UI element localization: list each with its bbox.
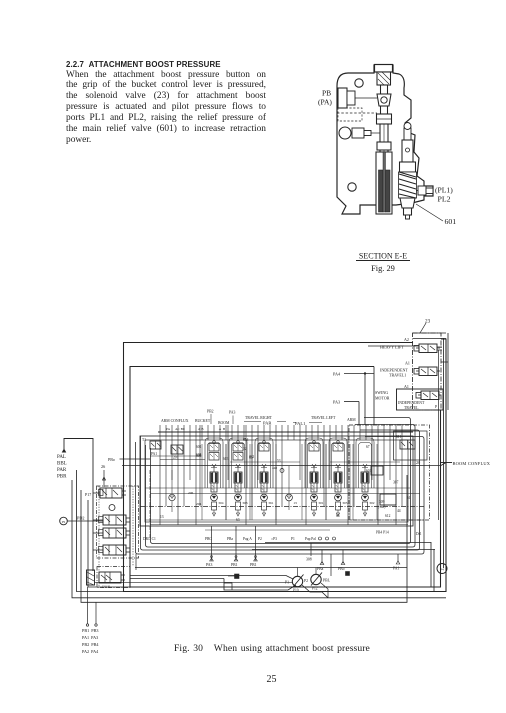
aux check column 289: [286, 494, 293, 501]
svg-text:P: P: [435, 405, 437, 409]
port PB(PA) flange: [338, 88, 347, 108]
svg-text:13: 13: [160, 515, 164, 519]
svg-text:P1: P1: [291, 537, 295, 541]
left wire B: [77, 470, 435, 592]
port PL fitting2: [426, 188, 433, 194]
pump P2 suction stub: [315, 568, 317, 575]
svg-text:A1: A1: [404, 384, 409, 389]
leader 601: [416, 204, 443, 221]
pilot valve 1 body: [100, 488, 122, 498]
svg-text:P17: P17: [85, 492, 91, 497]
solenoid valve heavy lift: [419, 344, 437, 353]
boss hole lower: [348, 183, 356, 191]
spring seat: [377, 114, 392, 124]
PAL bracket lines: [293, 422, 322, 424]
right section box: [349, 425, 430, 520]
cartridge upper body: [402, 140, 413, 162]
svg-text:307: 307: [393, 481, 399, 485]
cartridge hatch fill: [399, 172, 416, 198]
block PBo: [346, 572, 350, 576]
mid fitting tip: [364, 131, 371, 136]
svg-text:INDEPENDENT: INDEPENDENT: [398, 401, 425, 405]
pilot block dash-dot frame: [97, 486, 139, 558]
cartridge tip2: [406, 215, 410, 219]
pump feed line lower: [130, 579, 296, 591]
bank tie wires: [145, 456, 424, 525]
spool upper stem: [380, 124, 388, 152]
pilot box 201: [171, 445, 183, 454]
svg-text:ARM CONFLUX: ARM CONFLUX: [161, 419, 189, 423]
wire PB1b down: [255, 526, 257, 561]
relief 601 mid: [371, 466, 383, 475]
solenoid box independent travel 2: [397, 389, 444, 410]
spool mid collar: [377, 142, 391, 150]
svg-text:PA1: PA1: [151, 452, 157, 456]
wire heavy lift: [368, 345, 419, 347]
svg-text:Pap Pal: Pap Pal: [305, 537, 316, 541]
ind travel 2 solenoid box: [416, 393, 421, 399]
pilot valve 2 body: [103, 515, 126, 525]
bottom bus 2: [265, 542, 431, 544]
svg-text:PA1: PA1: [393, 567, 400, 571]
valve body outline (Section E-E): [337, 65, 433, 214]
svg-text:Dr1: Dr1: [416, 532, 422, 536]
svg-text:(PA): (PA): [318, 98, 332, 107]
main spool valve cx=365: [356, 438, 374, 488]
Fig.30 hydraulic circuit schematic: [57, 319, 491, 655]
wire boom conflux: [441, 462, 452, 464]
wrap wire 1: [151, 418, 411, 544]
heavy lift valve detail: [416, 344, 440, 353]
port circle 1: [86, 624, 88, 626]
solenoid valve independent travel 1: [419, 367, 437, 376]
svg-text:204: 204: [196, 502, 202, 506]
svg-text:PB2: PB2: [207, 410, 214, 414]
svg-text:44: 44: [397, 509, 401, 513]
wire pilot bracket: [64, 439, 93, 572]
bank vertical feed wires: [160, 425, 402, 525]
svg-text:603: 603: [223, 457, 229, 461]
pilot bus dash-dot: [140, 506, 424, 508]
pilot valve 3 body: [103, 528, 126, 538]
bank tie wires 2: [205, 462, 400, 530]
svg-text:309: 309: [379, 500, 385, 504]
svg-text:61: 61: [407, 496, 411, 500]
pilot valve 4 body: [103, 545, 126, 555]
leader PB2: [210, 414, 212, 424]
svg-text:P10: P10: [293, 589, 299, 593]
svg-text:13: 13: [293, 501, 297, 505]
spool slot: [383, 152, 386, 212]
coupling ball: [381, 97, 387, 103]
circle Pi: [437, 564, 447, 574]
marker PBa: [320, 562, 324, 565]
figure 30 caption: [174, 643, 370, 654]
pump P1 circle: [292, 576, 302, 586]
svg-text:P12: P12: [312, 587, 318, 591]
port circle 2: [95, 624, 97, 626]
marker PA1: [396, 561, 400, 564]
svg-text:BOOM: BOOM: [218, 421, 230, 425]
ind travel 2 detail: [418, 391, 441, 400]
svg-text:PA3: PA3: [206, 563, 213, 567]
valve 611: [400, 440, 415, 449]
svg-text:TRAVEL: TRAVEL: [404, 406, 419, 410]
svg-text:303: 303: [242, 501, 248, 505]
svg-text:PA3: PA3: [333, 400, 340, 405]
right inner box: [394, 431, 428, 460]
svg-text:601: 601: [196, 445, 202, 449]
port PL line: [416, 190, 418, 192]
svg-text:53: 53: [277, 459, 281, 463]
svg-text:PBo: PBo: [108, 457, 115, 462]
svg-text:PB1 PB3: PB1 PB3: [82, 628, 99, 633]
mid fitting: [352, 128, 364, 138]
wire PB1 down: [235, 526, 237, 561]
svg-text:SWING: SWING: [375, 390, 388, 395]
dashed gallery line: [337, 112, 377, 114]
svg-text:611: 611: [396, 435, 401, 439]
arrowhead pilot: [62, 449, 66, 452]
port PL fitting: [418, 186, 426, 195]
svg-text:66: 66: [336, 514, 340, 518]
svg-text:PBa: PBa: [227, 537, 233, 541]
pump P2 arrow: [311, 573, 322, 586]
main spool valve cx=214: [205, 438, 223, 488]
port circles bottom: [319, 537, 322, 540]
leader PA3 top: [232, 416, 234, 425]
svg-text:26: 26: [101, 464, 105, 469]
solenoid 23 coil hatch: [87, 572, 94, 585]
cluster supply wire right inner: [441, 333, 448, 410]
left wire D: [88, 500, 431, 587]
svg-text:BOOM CONFLUX: BOOM CONFLUX: [453, 461, 491, 466]
svg-text:305: 305: [342, 501, 348, 505]
inner circuit border box: [130, 367, 441, 588]
coupling: [377, 94, 391, 106]
pump feed line upper: [130, 576, 293, 580]
solenoid valve independent travel 2: [421, 391, 439, 400]
svg-text:PA4: PA4: [333, 372, 341, 377]
wire PA4 drop2: [373, 367, 375, 426]
cartridge hole: [406, 148, 410, 152]
svg-text:PA3: PA3: [229, 411, 236, 415]
body paragraph: [66, 70, 266, 146]
top plug cap: [375, 65, 393, 73]
svg-text:P4: P4: [440, 568, 444, 572]
svg-text:PAL: PAL: [57, 455, 66, 460]
cartridge collar: [400, 162, 416, 172]
suction bus: [135, 567, 407, 569]
svg-text:A2: A2: [404, 337, 409, 342]
wrap wire 2: [146, 425, 416, 548]
pilot bus dash-dot 2: [149, 470, 151, 540]
bank inner box 2: [145, 440, 408, 522]
bottom bus 1: [252, 549, 435, 551]
svg-text:304: 304: [218, 501, 224, 505]
pilot valve 1 detail: [102, 488, 126, 498]
svg-text:612: 612: [385, 514, 391, 518]
section heading 2.2.7: [66, 60, 221, 69]
pilot valve 3 detail: [105, 528, 130, 538]
svg-text:302: 302: [369, 501, 375, 505]
mid fitting line: [371, 132, 380, 134]
relief 309 body: [380, 494, 396, 505]
svg-text:PB1: PB1: [250, 563, 257, 567]
svg-text:ARM: ARM: [347, 418, 356, 422]
marker PBo: [341, 562, 345, 565]
wire bank to valve23: [135, 554, 137, 570]
svg-text:308: 308: [306, 558, 312, 562]
plug hatch: [378, 72, 390, 85]
junction PA4: [364, 373, 366, 375]
svg-text:63: 63: [236, 518, 240, 522]
svg-text:PS: PS: [62, 520, 66, 524]
top plug body: [377, 72, 391, 85]
pilot check circle: [109, 505, 115, 511]
wire PA3 down: [211, 526, 213, 561]
circle gauge PS: [60, 517, 68, 525]
ind travel 1 solenoid box: [414, 369, 419, 375]
cartridge stem: [404, 128, 411, 140]
cartridge tip: [404, 208, 412, 215]
bank column side wires: [202, 444, 377, 520]
svg-text:TRAVEL1: TRAVEL1: [389, 373, 406, 378]
svg-text:361: 361: [268, 501, 274, 505]
main spool valve cx=338: [329, 438, 347, 488]
cartridge hatched cyl: [399, 172, 417, 198]
svg-text:○P3: ○P3: [271, 537, 277, 541]
svg-text:PB1: PB1: [231, 563, 238, 567]
svg-text:PB4 P14: PB4 P14: [376, 531, 389, 535]
wire PBL: [330, 554, 332, 576]
wire PBo feed: [120, 458, 151, 460]
cluster dash-dot box 23: [413, 333, 442, 410]
cartridge top ball: [404, 123, 411, 130]
valve 23 internals: [101, 572, 125, 583]
wire PA4: [344, 373, 374, 375]
spool hatch dark: [379, 170, 384, 212]
cluster supply wire right outer: [443, 338, 445, 568]
svg-text:PA1 PA3: PA1 PA3: [82, 635, 98, 640]
spool lower sleeve: [376, 152, 392, 214]
svg-text:DR1 C1: DR1 C1: [143, 537, 156, 541]
svg-text:P2: P2: [258, 537, 262, 541]
svg-text:206: 206: [188, 491, 194, 495]
wire PBa bottom: [321, 550, 323, 564]
right supply vertical: [438, 350, 440, 520]
bank top rail: [158, 431, 413, 433]
left bank check: [169, 494, 175, 500]
spool hatch dark2: [386, 170, 391, 212]
underline section: [356, 260, 410, 262]
PAR bracket: [244, 421, 286, 423]
svg-text:TRAVEL RIGHT: TRAVEL RIGHT: [245, 416, 273, 420]
port PB(PA) inner: [347, 91, 355, 105]
pilot box 51: [150, 441, 161, 449]
svg-text:(306): (306): [378, 505, 385, 509]
wire to port 1: [87, 587, 89, 624]
wire 308: [310, 543, 312, 556]
pump P1 arrow: [293, 575, 304, 588]
svg-text:TRAVEL LEFT: TRAVEL LEFT: [311, 416, 336, 420]
cluster top link: [413, 333, 446, 339]
wire PBo: [342, 550, 344, 564]
wire PA1 bottom: [397, 554, 399, 562]
wire PS to block: [67, 520, 103, 522]
Fig.29 valve cross-section drawing: [318, 65, 456, 274]
svg-text:PB: PB: [322, 89, 331, 98]
wire PA4 drop: [364, 374, 366, 426]
plug neck: [381, 85, 388, 94]
pump feed line mid: [95, 581, 292, 583]
wrap wire 3: [141, 430, 420, 550]
pump outlet line: [302, 585, 328, 598]
svg-text:Fig. 29: Fig. 29: [371, 264, 395, 273]
wrap wire 4: [136, 437, 425, 555]
svg-text:J02: J02: [249, 455, 254, 459]
pilot block dotted verticals: [99, 486, 133, 586]
pump tail: [321, 583, 328, 598]
dashed gallery box: [338, 108, 362, 121]
seat lines: [377, 118, 392, 120]
svg-text:BUCKET: BUCKET: [195, 419, 211, 423]
wire to port 2: [95, 602, 97, 624]
pump box step: [224, 583, 232, 590]
spool stem center line: [383, 124, 385, 214]
svg-text:PA2 PA4: PA2 PA4: [82, 649, 99, 654]
boss hole upper: [355, 79, 363, 87]
cartridge hex nut: [400, 198, 415, 208]
left wire C: [81, 475, 407, 602]
svg-text:P2: P2: [304, 579, 308, 583]
motor square M: [235, 574, 240, 579]
svg-text:301: 301: [318, 501, 324, 505]
left mid boss: [339, 127, 351, 139]
pilot block wires: [93, 493, 103, 550]
svg-text:A1: A1: [405, 361, 410, 366]
svg-text:P1: P1: [285, 581, 289, 585]
svg-text:Pag A: Pag A: [243, 537, 252, 541]
outer circuit border box: [124, 339, 447, 592]
solenoid 23 coil: [87, 570, 95, 585]
pilot coil boxes: [99, 490, 104, 496]
main spool valve cx=264: [255, 438, 273, 488]
marker PA3: [210, 558, 214, 561]
wire 26 vertical: [103, 470, 106, 487]
svg-text:(PL1): (PL1): [435, 186, 453, 195]
svg-text:PL2: PL2: [438, 195, 451, 204]
wire M: [228, 575, 235, 577]
svg-text:PAR: PAR: [57, 468, 67, 473]
svg-text:PBL: PBL: [323, 579, 331, 583]
solenoid valve 23 body: [99, 572, 121, 583]
svg-text:PBR: PBR: [57, 475, 67, 480]
marker PB1b: [254, 558, 258, 561]
port line: [355, 97, 377, 99]
marker PB1: [234, 558, 238, 561]
main spool valve cx=314: [305, 438, 323, 488]
svg-text:601: 601: [445, 217, 457, 226]
svg-text:67: 67: [366, 445, 370, 449]
left wire A: [72, 480, 446, 598]
wire PA3 drop: [358, 402, 360, 426]
pump P1 suction stub: [297, 568, 299, 577]
pilot valve 2 detail: [105, 515, 130, 525]
svg-text:PB2 PB4: PB2 PB4: [82, 642, 99, 647]
pilot box 51 detail: [151, 441, 161, 449]
svg-text:604: 604: [196, 453, 202, 457]
solenoid valve 23 dash box: [97, 567, 130, 588]
pilot valve 4 detail: [105, 545, 130, 555]
heavy lift solenoid box: [414, 346, 419, 352]
svg-text:T1: T1: [142, 438, 146, 442]
svg-text:MOTOR: MOTOR: [375, 396, 390, 401]
bank inner box: [140, 436, 413, 526]
page number: [259, 674, 284, 685]
main spool valve cx=238: [229, 438, 247, 488]
svg-text:BBL: BBL: [57, 462, 67, 467]
leader 23: [420, 323, 426, 333]
wire PA3: [344, 401, 359, 403]
pilot box 201 detail: [172, 445, 183, 454]
wire heavy lift right: [437, 347, 442, 350]
svg-text:HEAVY LIFT: HEAVY LIFT: [380, 345, 404, 350]
pilot rail long: [122, 463, 446, 466]
port stub wires: [202, 425, 366, 440]
neck 2: [381, 106, 388, 114]
svg-text:PAR: PAR: [263, 421, 271, 426]
svg-text:[2] [3]: [2] [3]: [102, 585, 110, 589]
ind travel 1 detail: [416, 367, 440, 376]
pump P2 circle: [311, 574, 321, 584]
svg-text:SECTION E-E: SECTION E-E: [359, 252, 407, 261]
